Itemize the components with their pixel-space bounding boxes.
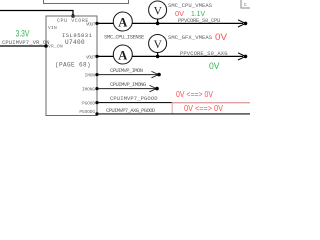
top block (cut off at top edge) <box>44 0 129 4</box>
voltmeter V1 <box>149 1 167 19</box>
svg-text:0V <==> 0V: 0V <==> 0V <box>184 103 223 113</box>
wire VIN feed from left <box>0 11 73 17</box>
op-amp U7400 main regulator box <box>46 16 97 116</box>
node VOUT2 <box>95 55 98 58</box>
wire voltmeter V1 stem <box>157 19 159 23</box>
wire PGOOD <box>97 102 250 104</box>
svg-text:PGOODG: PGOODG <box>79 109 95 115</box>
node VR_ON pin <box>44 44 48 48</box>
svg-text:V: V <box>154 39 163 51</box>
svg-text:C: C <box>244 2 247 8</box>
node VOUT1 <box>95 22 98 25</box>
arrow IMONG <box>150 85 157 91</box>
ammeter A2 <box>113 45 132 64</box>
svg-text:CPUIMVP7_VR_ON: CPUIMVP7_VR_ON <box>2 39 50 46</box>
voltmeter V2 <box>149 35 167 53</box>
svg-text:SMC_GFX_VMEAS: SMC_GFX_VMEAS <box>168 34 213 41</box>
svg-text:CPUIMVP_IMON: CPUIMVP_IMON <box>110 67 143 74</box>
svg-text:CPUIMVP7_AXG_PGOOD: CPUIMVP7_AXG_PGOOD <box>106 107 156 114</box>
svg-text:CPUIMVP7_PGOOD: CPUIMVP7_PGOOD <box>110 95 158 102</box>
svg-text:(PAGE 68): (PAGE 68) <box>55 62 91 69</box>
arrow off-page row2 <box>238 53 246 60</box>
wire PGOODG <box>97 113 250 115</box>
svg-text:IMON: IMON <box>85 73 96 79</box>
small box top-right corner <box>241 0 250 8</box>
node PGOODG <box>95 112 98 115</box>
highlight box measurement <box>172 103 252 114</box>
wire VOUT1 to ammeter <box>97 22 113 24</box>
svg-text:VOUT: VOUT <box>86 55 96 61</box>
svg-text:PGOOD: PGOOD <box>82 101 95 107</box>
wire IMONG <box>97 88 156 90</box>
wire ammeter A1 to arrow <box>132 22 243 24</box>
svg-text:VIN: VIN <box>48 25 57 31</box>
ammeter A1 <box>113 12 132 31</box>
node V1 junction <box>156 22 160 26</box>
svg-text:CPUIMVP_IMONG: CPUIMVP_IMONG <box>110 81 146 88</box>
svg-text:0V: 0V <box>215 32 228 43</box>
svg-text:PPVCORE_S0_AXG: PPVCORE_S0_AXG <box>180 50 228 57</box>
svg-text:PPVCORE_S0_CPU: PPVCORE_S0_CPU <box>178 17 220 24</box>
svg-text:A: A <box>118 48 127 62</box>
wire VOUT2 to ammeter <box>97 55 113 57</box>
svg-text:CPU VCORE: CPU VCORE <box>57 18 89 24</box>
svg-text:V: V <box>154 5 163 17</box>
svg-text:SMC_CPU_VMEAS: SMC_CPU_VMEAS <box>168 2 213 9</box>
node IMON <box>95 73 98 76</box>
svg-text:A: A <box>118 15 127 29</box>
wire IMON <box>97 74 158 76</box>
svg-text:ISL95831: ISL95831 <box>62 32 93 39</box>
node IMONG <box>95 87 98 90</box>
wire ammeter A2 to arrow <box>132 55 243 57</box>
svg-text:0V <==> 0V: 0V <==> 0V <box>176 90 213 99</box>
node PGOOD <box>95 101 98 104</box>
svg-text:U7400: U7400 <box>65 39 85 46</box>
wire voltmeter V2 stem <box>157 53 159 57</box>
arrow off-page row1 <box>238 20 246 27</box>
svg-text:IMONG: IMONG <box>82 87 95 93</box>
wire VR_ON <box>0 45 46 47</box>
node VIN junction on box top <box>71 14 75 18</box>
arrow IMON <box>152 71 159 77</box>
svg-text:0V: 0V <box>209 61 220 72</box>
svg-text:SMC_CPU_ISENSE: SMC_CPU_ISENSE <box>104 34 145 41</box>
svg-text:3.3V: 3.3V <box>16 28 30 38</box>
svg-text:VOUT: VOUT <box>86 22 96 28</box>
svg-text:VR_ON: VR_ON <box>48 44 63 50</box>
node V2 junction <box>156 55 160 59</box>
